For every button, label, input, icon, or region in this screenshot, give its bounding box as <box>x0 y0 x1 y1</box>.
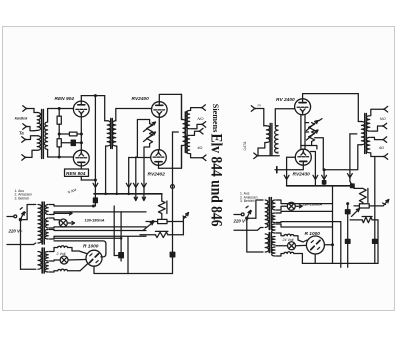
mains switch S2 <box>234 206 252 220</box>
wire rect to right column <box>324 244 332 246</box>
transformer T1 primary winding upper <box>34 113 41 131</box>
input terminal Ta bottom <box>22 150 34 160</box>
transformer T3 primary winding <box>182 94 187 168</box>
wire heater lead 1 <box>136 157 138 194</box>
svg-text:REN 904: REN 904 <box>66 171 86 177</box>
svg-text:REN 904: REN 904 <box>55 96 75 102</box>
label Rundfunk <box>15 115 28 120</box>
transformer T7 secondary 5 <box>272 247 275 256</box>
rectifier R1000 right <box>306 236 324 254</box>
triode V1 REN 904 <box>73 101 89 117</box>
transformer T5 primary winding <box>264 126 270 143</box>
wire sec3 bottom rail <box>50 236 147 239</box>
wire lamp4 to rect <box>296 244 307 246</box>
svg-text:2 Volt: 2 Volt <box>56 252 67 256</box>
bottom rail left psu <box>128 273 173 275</box>
svg-text:RV2400: RV2400 <box>132 96 150 102</box>
transformer T1 secondary winding <box>44 122 47 150</box>
rectifier R1000 <box>86 250 102 266</box>
wire V6 heater lead right <box>311 152 316 186</box>
wire V5 anode up/right <box>303 94 359 99</box>
transformer T4 heater winding <box>38 252 41 270</box>
wire V2 anode down <box>81 166 95 180</box>
terminal arrow NE right <box>383 200 389 206</box>
wire sec4b to lamp2 <box>50 260 61 261</box>
wire V4 anode down/right <box>158 165 160 168</box>
triode V6 RV2430 (inverted) <box>295 149 311 165</box>
label REN 904 (V1) <box>55 96 75 102</box>
wire grid V6 <box>287 157 296 186</box>
wire V1 anode to T2 primary <box>81 94 104 97</box>
junction blob <box>93 198 97 203</box>
svg-text:RV2402: RV2402 <box>148 171 166 177</box>
svg-text:NO: NO <box>380 116 386 121</box>
wire B+ drop to bus <box>94 96 97 194</box>
open arrow down r1 <box>284 175 289 179</box>
label switch positions right <box>240 192 258 204</box>
capacitor C7 (block) <box>373 239 378 264</box>
input terminal Rundfunk bottom <box>23 124 34 131</box>
label 130-180mA <box>85 218 105 222</box>
choke bumps right 2 <box>276 252 302 264</box>
choke bumps 1 <box>54 246 72 251</box>
wire sec2 top to lamp <box>50 218 60 223</box>
resistor R1 (grid leak) <box>57 116 61 124</box>
potentiometer wiper arrow <box>143 222 154 231</box>
wire switch to T7 <box>247 200 261 218</box>
open arrow down (grid lead) <box>126 183 131 187</box>
transformer T7 secondary 3 <box>272 224 275 233</box>
potentiometer wiper right <box>352 209 360 217</box>
label nr <box>276 150 280 154</box>
label 130-180 mA right <box>302 202 322 206</box>
wire V5 filament down <box>301 115 305 150</box>
svg-text:4Ω: 4Ω <box>197 145 202 150</box>
wire r sec2 to lamp <box>276 206 287 210</box>
transformer T5 secondary winding <box>275 126 278 153</box>
label 220V right <box>233 219 248 224</box>
transformer T5 core <box>270 124 272 156</box>
wire t7 heater left <box>247 251 263 253</box>
label 0,67A vertical <box>243 141 247 151</box>
pilot lamp L3 <box>287 202 295 210</box>
wire node grid1 <box>58 107 61 139</box>
wire sec4 to bumps <box>50 248 55 252</box>
svg-text:RV2430: RV2430 <box>293 171 311 177</box>
wire B+ node <box>94 194 96 206</box>
wire bumps1 to rectifier <box>72 251 87 254</box>
transformer T7 heater winding <box>265 234 268 252</box>
filter vertical 1 <box>114 206 119 256</box>
wire mains left drop <box>7 221 34 270</box>
wire corner into T2 <box>104 96 106 121</box>
wire V3 anode up/right <box>159 94 181 101</box>
wire V6 column down <box>322 168 325 186</box>
wire below R2 <box>58 147 61 159</box>
transformer T7 secondary 4 <box>271 237 275 246</box>
label NO <box>198 116 204 121</box>
transformer T4 secondary 3 <box>45 230 48 240</box>
wire heater winding left <box>21 268 36 270</box>
svg-text:R 1000: R 1000 <box>83 244 99 250</box>
svg-text:Rundfunk: Rundfunk <box>15 115 28 120</box>
choke bumps right <box>276 233 298 240</box>
transformer T7 primary winding <box>265 200 268 228</box>
wire column right <box>182 217 184 235</box>
wire t7 prim leads <box>261 199 264 201</box>
wire r rail 4 <box>276 224 332 227</box>
wire V1 filament to V2 <box>80 117 82 150</box>
output terminal r4 <box>384 154 388 160</box>
wire lamp right w arrow <box>54 212 75 225</box>
heater stub 2 below bus <box>142 194 145 201</box>
input terminal Ta top <box>22 136 34 143</box>
label switch positions <box>15 189 33 201</box>
transformer T4 primary winding <box>38 205 41 244</box>
potentiometer P3 <box>305 121 318 133</box>
svg-text:RV 2400: RV 2400 <box>276 97 295 103</box>
transformer T4 secondary 2 <box>45 218 48 228</box>
wire sec tap2 to terminal 3 <box>191 131 199 135</box>
label N 904 (note) <box>67 188 77 195</box>
svg-text:NO: NO <box>198 116 204 121</box>
wire sec3 top rail <box>50 230 147 231</box>
transformer T6 secondary upper <box>366 116 369 131</box>
transformer T4 secondary 4 <box>45 252 48 262</box>
transformer T4 secondary 1 <box>45 205 48 215</box>
triode V5 RV2400 <box>295 99 311 115</box>
label 220V <box>8 229 23 234</box>
open arrow down r2 <box>322 175 327 179</box>
label RV2400 (V3) <box>132 96 150 102</box>
open arrow down (B+ lead) <box>93 183 98 187</box>
open arrow down (heater lead 2) <box>142 183 147 187</box>
svg-text:130-180mA: 130-180mA <box>302 202 322 206</box>
output terminal 4 <box>202 155 206 161</box>
wire r rail 2 <box>276 211 332 213</box>
potentiometer P1 <box>144 122 156 134</box>
output terminal r1 <box>384 106 388 112</box>
transformer T2 secondary winding <box>112 121 115 146</box>
svg-text:m: m <box>258 104 261 108</box>
transformer T6 secondary lower <box>366 137 369 152</box>
wire tap2 to terminal r3 <box>371 137 383 139</box>
wire sec2 bottom rail <box>50 227 147 228</box>
wire into output transformer primary <box>181 94 183 119</box>
wire sec1 top rail <box>50 205 96 208</box>
comb resistor <box>140 231 183 237</box>
wire grid line to V1 <box>59 108 73 110</box>
svg-text:4Ω: 4Ω <box>379 145 384 150</box>
terminal arrow NE <box>183 213 189 220</box>
label RV2430 (V6) <box>293 171 311 177</box>
svg-text:Siemens: Siemens <box>211 104 220 133</box>
transformer T2 core <box>111 119 113 149</box>
transformer T4 secondary 5 <box>45 263 48 273</box>
wire B+ tap T3 down <box>170 132 178 274</box>
wire T2 secondary top to V3 grid <box>116 109 152 121</box>
svg-text:0,67A: 0,67A <box>243 141 247 151</box>
wire lamp3 right <box>295 205 302 208</box>
input terminal m <box>251 104 263 126</box>
wire T1 secondary top to grid line <box>48 109 60 123</box>
wire rectifier output down <box>80 264 128 274</box>
triode V2 REN 904 (inverted) <box>73 150 89 166</box>
pilot lamp L2 <box>60 256 68 264</box>
label RV2402 (V4) <box>148 171 166 177</box>
label Elv 844 und 846 (vertical) <box>208 134 225 227</box>
wire pot top <box>137 120 149 158</box>
mains switch S1 <box>7 208 25 222</box>
wire into T6 primary <box>357 94 359 122</box>
label NO right <box>380 116 386 121</box>
resistor box (white) <box>146 219 183 223</box>
transformer T7 secondary 2 <box>272 213 275 223</box>
wire sec1 bottom rail <box>50 212 147 215</box>
wire V4 anode to output primary bottom <box>159 146 182 169</box>
input terminal antenna (Rundfunk top) <box>23 106 34 113</box>
open arrow down (heater lead 1) <box>133 183 138 187</box>
capacitor C2 (block) <box>119 212 124 261</box>
heater stub 1 below bus <box>134 194 137 201</box>
transformer T3 core <box>185 112 187 153</box>
resistor R3 (horizontal box) <box>58 132 83 136</box>
wire pot bottom to bus <box>144 144 150 194</box>
output terminal r3 <box>383 137 387 143</box>
wire tap to terminal r2 <box>371 126 383 131</box>
input terminal right 2 <box>254 153 279 159</box>
pilot lamp L1 <box>59 219 67 227</box>
transformer T7 secondary 1 <box>272 200 275 210</box>
wire T6 sec top to terminal <box>371 109 384 116</box>
wire T6 sec bottom down <box>374 157 376 239</box>
svg-text:Elv 844 und 846: Elv 844 und 846 <box>208 134 225 227</box>
transformer T7 core <box>269 198 271 253</box>
triode V4 RV2402 (inverted) <box>151 150 167 166</box>
choke bumps 2 <box>50 269 81 272</box>
output terminal r2 <box>383 123 387 129</box>
small tick <box>319 119 322 121</box>
label Siemens (vertical) <box>211 104 220 133</box>
transformer T6 core <box>365 114 367 154</box>
label REN 904 (V2) boxed <box>65 169 89 177</box>
wire switch to primary top <box>20 205 33 220</box>
triode V3 RV2400 <box>152 102 168 118</box>
potentiometer P2 <box>144 132 156 144</box>
transformer T3 secondary lower <box>186 135 189 153</box>
wire lamp2 to rectifier <box>68 259 85 262</box>
wire V1 anode up <box>80 96 82 102</box>
transformer T1 primary winding lower <box>34 136 41 150</box>
transformer T4 core <box>42 202 44 273</box>
wire sec tap to terminal 2 <box>191 124 202 128</box>
wire T2 secondary bottom down <box>116 146 117 194</box>
capacitor C6 (block) <box>345 204 350 264</box>
resistor R2 <box>57 139 61 147</box>
output terminal 2 <box>202 122 206 128</box>
label R 1000 right <box>282 231 321 242</box>
resistor dropper <box>158 201 167 214</box>
capacitor plate C4 <box>275 167 277 173</box>
transformer T1 core <box>42 110 44 159</box>
output terminal 1 <box>201 105 205 111</box>
filter vertical 2 <box>127 237 129 274</box>
label RV 2400 (V5) <box>276 97 295 103</box>
wire comb right down <box>377 220 379 264</box>
wire bumps to rect <box>298 240 307 242</box>
wire T5 primary bottom <box>258 143 266 156</box>
label a <box>197 145 202 150</box>
wire right column top <box>331 186 334 264</box>
svg-text:24 Volt: 24 Volt <box>282 238 295 242</box>
wire T2 primary bottom to bus <box>106 146 108 194</box>
open arrow heater r <box>313 175 318 179</box>
wire sec bottom to terminal r4 <box>371 153 384 157</box>
wire r rail 3 <box>276 221 341 224</box>
wire V3 filament down to V4 <box>158 117 160 150</box>
svg-text:220 V~: 220 V~ <box>233 219 248 224</box>
wire r lamp4 <box>276 245 287 247</box>
wire plain vertical right <box>340 222 342 264</box>
speaker connector circle <box>171 185 175 189</box>
comb resistor right <box>350 217 378 223</box>
wire HT to rectifier anode (loop) <box>54 241 106 257</box>
wire rail3 junction <box>346 202 349 205</box>
wire primary ends <box>34 205 36 245</box>
wire bus corner down <box>161 194 163 201</box>
wire T5 secondary top to V5 grid <box>275 109 295 126</box>
wire pot bottom right <box>301 138 323 170</box>
svg-text:130-180mA: 130-180mA <box>85 218 105 222</box>
wire to box resistor <box>161 214 163 222</box>
svg-text:Ta: Ta <box>19 131 24 136</box>
open arrow B+ tap <box>348 174 353 178</box>
wire sec bottom to terminal 4 <box>191 154 202 158</box>
label a right <box>379 145 384 150</box>
label Ta <box>19 131 24 136</box>
wire mains drop right <box>234 220 263 252</box>
label 2 Volt <box>56 252 67 256</box>
resistor box right col <box>354 202 383 208</box>
transformer T3 secondary upper <box>186 111 189 129</box>
wire rect bottom <box>314 254 316 263</box>
potentiometer P4 <box>305 130 318 142</box>
wire r sec1 rail <box>276 200 332 204</box>
wire T1 secondary bottom to V2 grid <box>48 150 74 158</box>
resistor zigzag right col <box>354 186 368 203</box>
svg-text:3. Betrieb: 3. Betrieb <box>15 196 30 200</box>
output terminal 3 <box>199 128 203 134</box>
wire V4 grid left <box>129 157 151 159</box>
wire sec top to terminal <box>191 108 202 111</box>
wire T6 primary bottom to V6 anode line <box>323 145 361 170</box>
label R 1000 <box>83 244 99 250</box>
ground bus (left amp) <box>94 193 162 196</box>
svg-text:3. Betrieb: 3. Betrieb <box>240 199 255 203</box>
ground bus right amp <box>287 184 355 188</box>
transformer T2 primary winding <box>105 121 111 146</box>
wire V6 anode down <box>278 165 304 170</box>
pilot lamp L4 <box>288 242 296 250</box>
wire B+ tap T6 <box>350 134 357 186</box>
transformer T6 primary winding <box>358 122 365 145</box>
bottom rail right psu <box>302 263 378 267</box>
capacitor C1 (block) <box>61 140 83 145</box>
wire grid lead 2 down <box>128 158 130 194</box>
